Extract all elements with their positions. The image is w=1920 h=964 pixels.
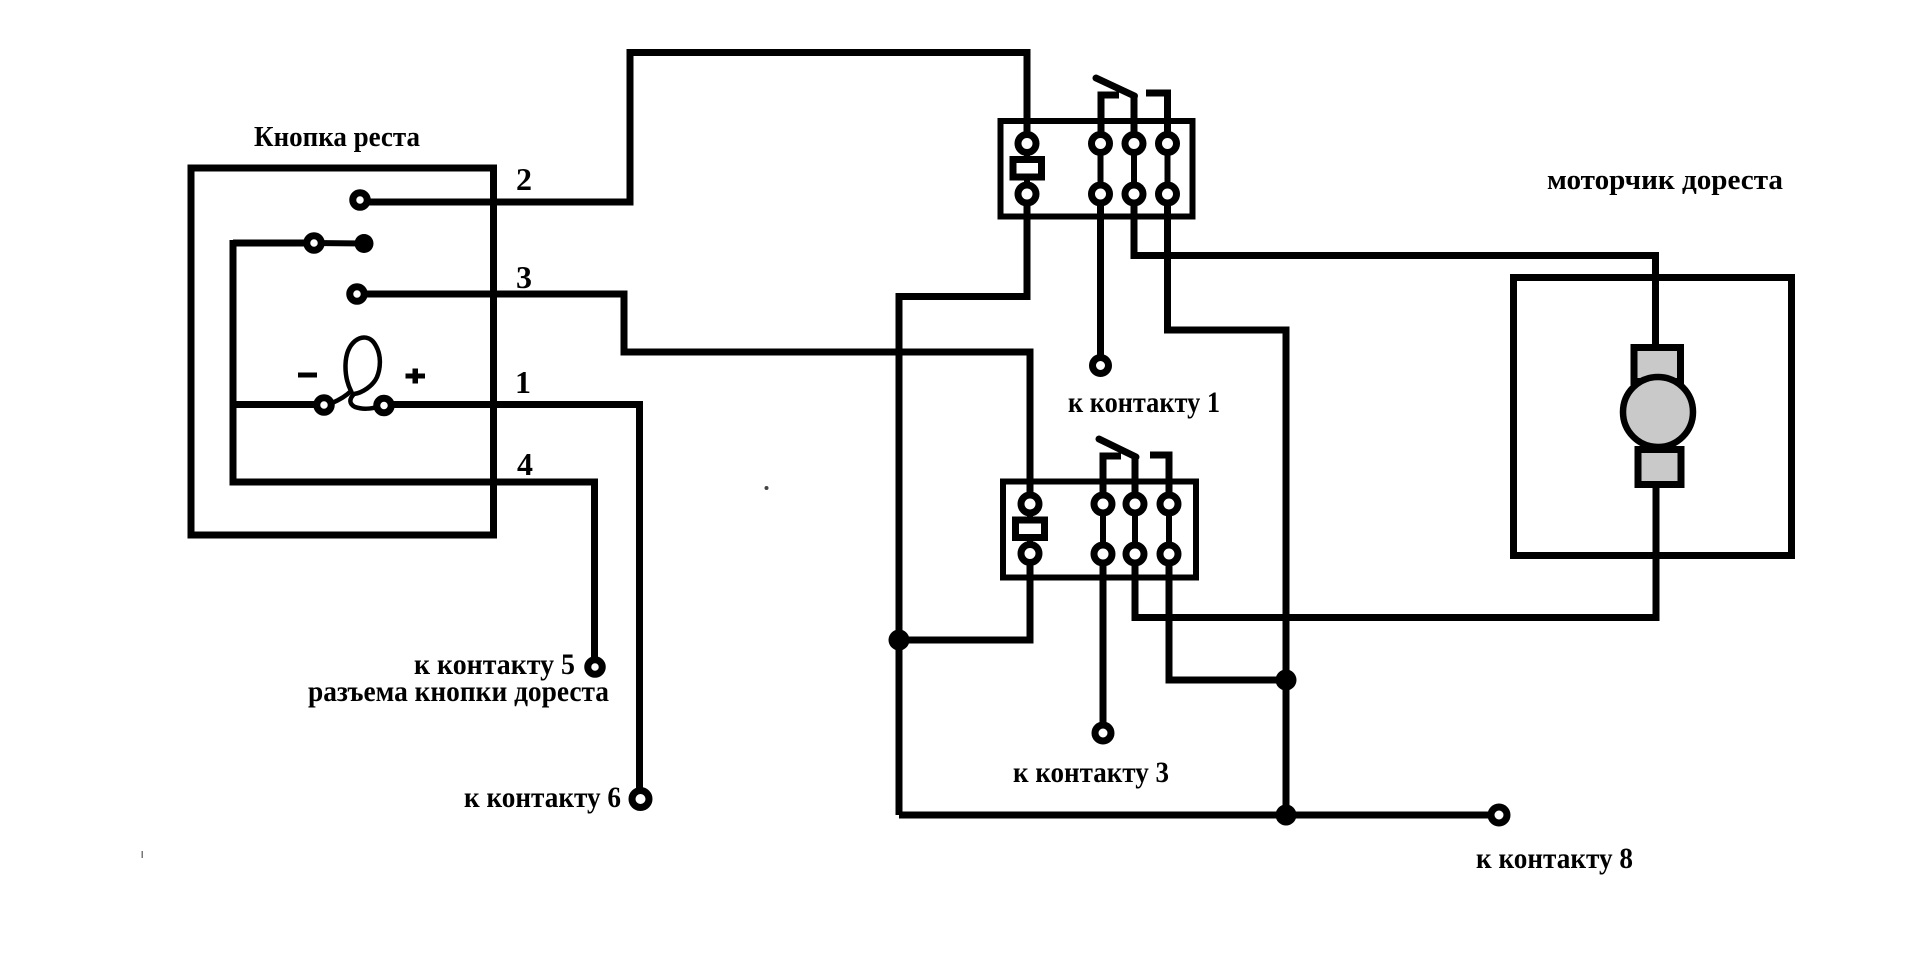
- svg-text:к контакту 6: к контакту 6: [464, 781, 621, 814]
- wire terminal4 to contact-5 pad: [233, 482, 595, 667]
- contact-6 pad: [632, 791, 649, 808]
- relay K2 pin3 upper hook: [1150, 455, 1169, 504]
- relay K1 switch arm diagonal: [1096, 78, 1135, 96]
- svg-text:к контакту 1: к контакту 1: [1068, 386, 1220, 419]
- wire relay K2 pin2 to motor bottom: [1135, 486, 1656, 618]
- svg-text:2: 2: [516, 161, 532, 197]
- relay K2 pin stubs inside: [1027, 504, 1033, 520]
- junction dot right bus / K2 pin3: [1276, 670, 1297, 691]
- relay K2 coil rect: [1016, 520, 1045, 538]
- relay K1 coil pins: [1018, 135, 1036, 153]
- contact-1 pad: [1093, 358, 1109, 374]
- relay K1 contact pins bottom: [1092, 185, 1110, 203]
- stray ink dot: [765, 486, 769, 490]
- wire terminal3 to relay K2 coil top: [357, 294, 1030, 504]
- relay K2 contact pins bottom: [1094, 545, 1112, 563]
- junction dot at left bus / K2 coil: [889, 630, 910, 651]
- lamp right pin: [377, 398, 392, 413]
- lamp minus sign: [298, 373, 317, 378]
- relay K1 pin3 upper hook: [1146, 93, 1168, 144]
- button box Кнопка реста: [191, 168, 494, 535]
- wire relay K1 pin3 to right bus: [1168, 194, 1287, 815]
- wire terminal2 to relay K1 coil top: [360, 53, 1027, 203]
- switch arm link: [314, 240, 364, 247]
- motor M1 rotor: [1623, 377, 1693, 447]
- wire to lamp minus: [233, 401, 324, 408]
- svg-text:1: 1: [515, 364, 531, 400]
- relay K2 coil pins: [1021, 495, 1039, 513]
- junction dot right bus / bottom bus: [1276, 805, 1297, 826]
- wire to switch contact: [233, 240, 314, 247]
- svg-text:4: 4: [517, 446, 533, 482]
- relay K2 box: [1003, 482, 1196, 578]
- relay K2 pin1 upper stub: [1103, 456, 1121, 504]
- relay K2 pin2 upper stub: [1132, 458, 1139, 504]
- motor M1 top brush: [1634, 348, 1681, 382]
- button internal left rail: [230, 240, 237, 486]
- svg-text:3: 3: [516, 259, 532, 295]
- svg-text:к контакту 3: к контакту 3: [1013, 756, 1169, 789]
- terminal 2 pin: [353, 193, 368, 208]
- contact-3 pad: [1095, 725, 1111, 741]
- lamp plus sign: [406, 374, 426, 379]
- switch moving dot: [355, 234, 374, 253]
- wire bottom bus to contact-8 pad: [899, 812, 1488, 819]
- contact-8 pad: [1491, 807, 1507, 823]
- svg-text:моторчик дореста: моторчик дореста: [1547, 164, 1783, 196]
- lamp left pin: [317, 398, 332, 413]
- wire relay K1 coil bottom to bottom bus: [899, 194, 1027, 815]
- relay K1 contact pins top: [1092, 135, 1110, 153]
- svg-text:Кнопка реста: Кнопка реста: [254, 122, 420, 153]
- svg-text:разъема кнопки дореста: разъема кнопки дореста: [308, 675, 609, 708]
- relay K1 pin stubs inside: [1024, 144, 1030, 158]
- switch fixed pin: [307, 236, 322, 251]
- wire relay K2 coil bottom: [899, 553, 1030, 640]
- wire relay K2 pin3 to right bus: [1169, 554, 1286, 680]
- wire relay K1 pin1 to contact-1 pad: [1097, 194, 1104, 360]
- relay K1 pin2 upper stub: [1131, 97, 1138, 144]
- terminal 3 pin: [350, 287, 365, 302]
- relay K1 box: [1001, 121, 1193, 217]
- svg-text:к контакту 8: к контакту 8: [1476, 842, 1633, 875]
- wire terminal1 to contact-6 pad: [384, 405, 640, 800]
- lamp loop symbol: [332, 338, 380, 409]
- contact-5 pad: [588, 660, 603, 675]
- motor box: [1514, 278, 1792, 556]
- relay K1 pin1 upper stub: [1101, 95, 1119, 144]
- relay K1 coil rect: [1013, 160, 1042, 178]
- wire relay K1 pin2 to motor top: [1134, 194, 1656, 348]
- relay K2 switch arm diagonal: [1099, 439, 1136, 457]
- wire relay K2 pin1 to contact-3 pad: [1100, 554, 1107, 728]
- motor M1 bottom brush: [1638, 450, 1681, 485]
- stray tick mark: [142, 851, 144, 858]
- relay K2 contact pins top: [1094, 495, 1112, 513]
